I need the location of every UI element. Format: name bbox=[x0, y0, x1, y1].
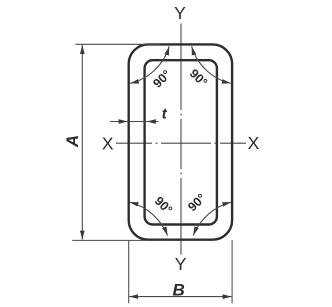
svg-text:X: X bbox=[102, 134, 114, 154]
svg-text:90°: 90° bbox=[152, 194, 175, 217]
svg-text:A: A bbox=[63, 135, 82, 148]
svg-text:Y: Y bbox=[174, 3, 186, 23]
svg-text:B: B bbox=[173, 281, 185, 300]
svg-text:90°: 90° bbox=[185, 191, 208, 214]
svg-text:t: t bbox=[162, 106, 168, 123]
svg-text:Y: Y bbox=[175, 254, 187, 274]
svg-text:X: X bbox=[248, 133, 260, 153]
